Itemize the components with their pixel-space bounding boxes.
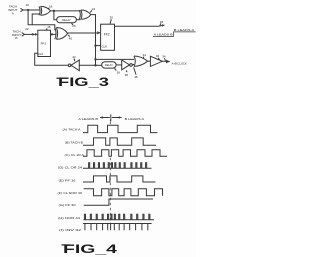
node TACH INPUT B label [12, 29, 21, 40]
node OR44 top tap [94, 58, 96, 60]
svg-text:38: 38 [125, 73, 129, 77]
svg-text:22: 22 [25, 27, 29, 31]
gate XOR 40 [55, 28, 68, 40]
delay element 36 [102, 62, 116, 68]
svg-text:FIG_3: FIG_3 [58, 77, 109, 89]
svg-text:FIG_4: FIG_4 [63, 244, 118, 256]
wire input A to gate 18 [23, 9, 40, 11]
wire waveform FF 30 [84, 199, 153, 205]
wire gate40 output to FF2 D [68, 32, 98, 34]
wire gate18 lower input elbow [32, 14, 40, 25]
pin FF2 D arrowhead [97, 31, 100, 34]
node A junction [27, 9, 29, 11]
wire to inverter 42 input [79, 64, 96, 66]
wire waveform FF 16 [83, 176, 156, 182]
inverter 42 [68, 60, 79, 71]
pin FF1 D arrowhead [35, 33, 38, 36]
svg-text:(D) CL OR 24: (D) CL OR 24 [58, 165, 83, 169]
svg-text:40: 40 [69, 36, 73, 40]
wire to FF2 CLK [96, 45, 101, 47]
svg-text:18: 18 [49, 4, 53, 8]
svg-text:B: B [15, 36, 17, 40]
svg-text:(A) TACH A: (A) TACH A [63, 128, 81, 132]
gate OR 44 [134, 56, 148, 66]
wire FF2 Q output [115, 24, 163, 27]
flip-flop U FF1 [38, 30, 51, 56]
wire waveform pulses 44 [84, 214, 155, 220]
wire to delay 36 input [96, 64, 102, 66]
wire waveform CL 20 [83, 150, 167, 157]
svg-text:CLK: CLK [38, 52, 43, 56]
svg-text:DELAY: DELAY [62, 18, 71, 22]
svg-text:36: 36 [117, 71, 121, 75]
wire dashed divider [109, 120, 111, 124]
wire input B to FF1 [24, 33, 35, 35]
input arrow A [20, 8, 23, 11]
wire FF1 Q to gate 40 [51, 33, 57, 35]
svg-text:A LEADS B: A LEADS B [78, 117, 98, 121]
svg-text:28: 28 [160, 20, 164, 24]
label 26 [72, 23, 74, 25]
svg-text:(C) CL 20 A: (C) CL 20 A [65, 153, 85, 157]
svg-text:30: 30 [110, 15, 114, 19]
wire waveform TACH B [83, 138, 156, 145]
svg-text:(E) FF 16: (E) FF 16 [59, 179, 77, 183]
label 46 leader below [134, 67, 136, 74]
wire delay26 to gate24 lower input [76, 19, 80, 21]
svg-text:32: 32 [156, 54, 160, 58]
label 38 [125, 70, 128, 72]
svg-text:CLK: CLK [102, 45, 108, 49]
svg-text:44: 44 [143, 53, 147, 57]
svg-text:24: 24 [92, 7, 96, 11]
wire A branch down and across [28, 10, 56, 30]
node gate18 output junction [53, 10, 55, 12]
wire gate24 output to vertical bus [91, 15, 96, 66]
wire junction down to delay 26 [54, 11, 57, 20]
svg-text:A+B CLOCK: A+B CLOCK [172, 62, 187, 66]
output arrow 28 [162, 24, 165, 27]
wire delay36 to inverter 38 [116, 64, 122, 66]
gate XOR 24 [79, 10, 91, 19]
wire waveform TACH A [83, 125, 158, 132]
svg-text:(F) CL NOR 40: (F) CL NOR 40 [58, 191, 83, 195]
header A LEADS B arrow [78, 114, 144, 121]
wire FF1 CLK feed [35, 53, 69, 65]
svg-text:(B) TACH B: (B) TACH B [65, 141, 83, 145]
wire gate18 output [51, 10, 81, 12]
svg-text:FF1: FF1 [41, 41, 47, 45]
svg-text:16: 16 [47, 25, 51, 29]
svg-text:20: 20 [26, 3, 30, 7]
svg-text:DELAY: DELAY [105, 64, 113, 67]
label 36 [115, 68, 117, 70]
wire to OR44 top input [96, 58, 135, 60]
svg-text:46: 46 [134, 75, 138, 79]
node FF1 Q junction [51, 33, 53, 35]
wire waveform INV 32 [83, 224, 152, 231]
node CLK tap FF2 [94, 44, 96, 46]
wire waveform NOR 40 [84, 189, 163, 196]
flip-flop U FF2 [101, 24, 115, 50]
wire inverter38 to OR44 [132, 63, 134, 66]
wire underline bracket [153, 32, 196, 37]
node B junction [32, 33, 34, 35]
gate XOR 18 [39, 6, 51, 15]
input arrow B [22, 33, 25, 37]
caption FIG. 3 [57, 77, 110, 89]
svg-text:(G) FF 30: (G) FF 30 [59, 203, 77, 207]
node delay36/inv42 tap [94, 64, 96, 66]
wire waveform pulses 24 [83, 163, 152, 169]
svg-text:34: 34 [162, 55, 166, 59]
svg-text:FF2: FF2 [104, 33, 110, 37]
wire buffer output [162, 60, 166, 62]
label 40 [68, 35, 69, 37]
svg-text:(I) INV 32: (I) INV 32 [59, 228, 82, 232]
wire OR44 to buffer [148, 60, 151, 62]
output arrow A+B CLOCK [166, 60, 170, 64]
caption FIG. 4 [62, 244, 118, 256]
inverter 38 [122, 60, 133, 70]
delay element 26 [57, 17, 77, 23]
svg-text:(H) NOR 44: (H) NOR 44 [58, 216, 81, 220]
svg-text:26: 26 [72, 24, 76, 28]
buffer 32 [150, 56, 162, 66]
node TACH INPUT A label [8, 5, 17, 16]
svg-text:B LEADS A: B LEADS A [125, 117, 145, 121]
